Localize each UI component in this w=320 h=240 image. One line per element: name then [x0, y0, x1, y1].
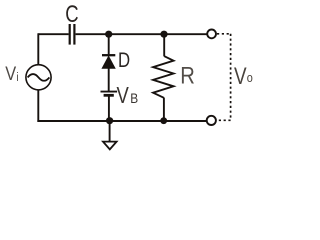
wire diode to battery [108, 68, 110, 91]
junction dot bottom resistor node [160, 117, 167, 124]
wire ground stem [109, 121, 111, 142]
terminal bottom output [207, 116, 216, 125]
svg-text:i: i [16, 71, 18, 84]
wire left vertical lower [37, 90, 39, 122]
wire diode branch top [108, 34, 110, 54]
source Vi circle with sine [26, 65, 51, 90]
wire resistor branch top [163, 34, 165, 56]
wire resistor branch bottom [163, 98, 165, 121]
svg-text:D: D [118, 50, 130, 73]
junction dot top resistor node [160, 31, 167, 38]
svg-text:V: V [117, 83, 129, 108]
wire bottom horizontal [37, 120, 207, 122]
wire top-left horizontal [38, 33, 68, 35]
svg-text:o: o [247, 70, 253, 85]
ground [103, 142, 117, 150]
junction dot bottom diode node [106, 117, 113, 124]
capacitor C1 plates [70, 24, 75, 45]
svg-text:V: V [5, 63, 16, 85]
terminal top output [207, 30, 216, 39]
svg-text:R: R [180, 62, 195, 89]
dashed wire bottom to Vo [217, 119, 231, 121]
battery VB [101, 92, 118, 96]
wire battery to bottom [108, 95, 110, 121]
junction dot top diode node [105, 31, 112, 38]
svg-text:B: B [130, 90, 138, 106]
wire top-right horizontal [76, 33, 208, 35]
dashed wire vertical Vo [230, 34, 232, 121]
svg-text:V: V [234, 63, 247, 90]
diode D [102, 55, 115, 68]
svg-text:C: C [65, 1, 78, 28]
dashed wire top to Vo [217, 33, 231, 35]
wire left vertical upper [37, 33, 39, 64]
resistor R zigzag [153, 56, 173, 98]
